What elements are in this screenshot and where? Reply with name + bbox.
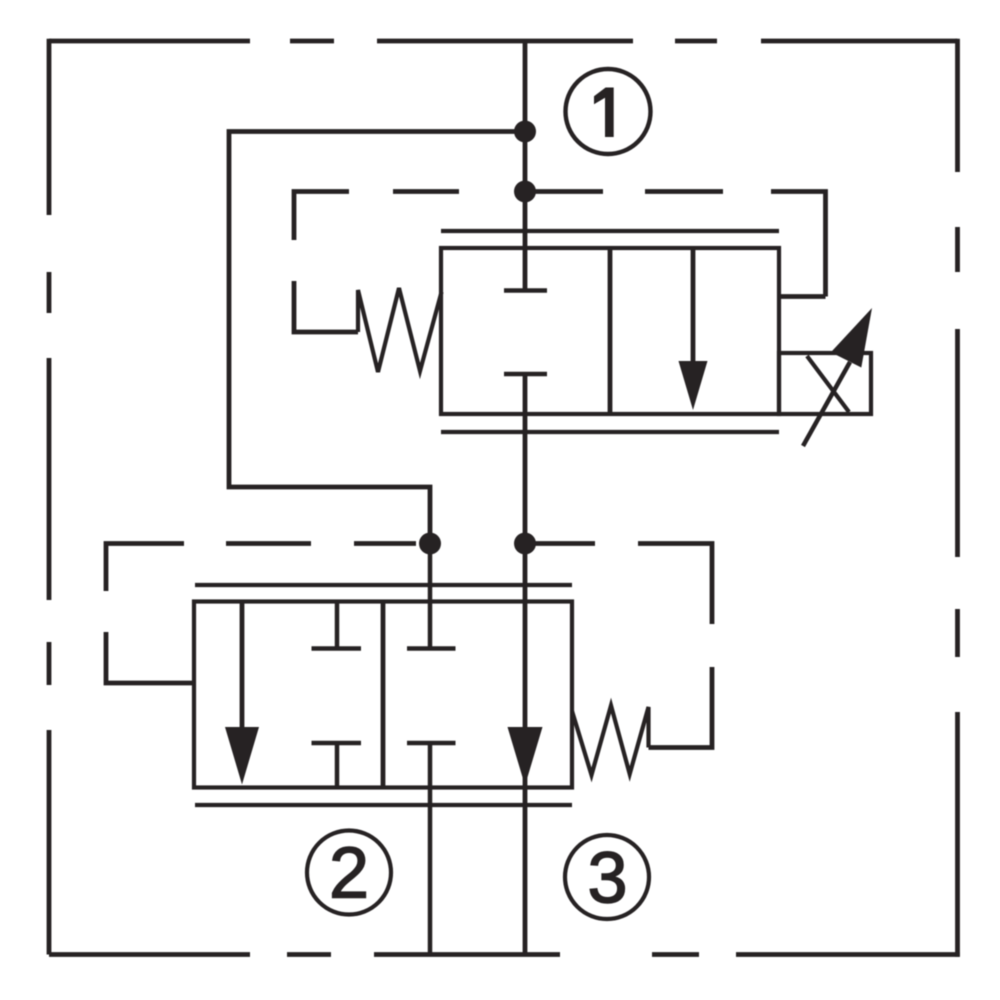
port 3 circle label [565,835,649,919]
upper valve flow arrow head [679,361,708,410]
outer boundary dashed right [955,39,960,957]
node junction dot upper [514,121,536,143]
spring lower valve [572,706,649,776]
node junction dot A lower [419,533,441,555]
upper valve body line bottom [441,430,779,434]
node junction dot on pilot line [514,181,536,203]
wire solid pilot loop left (port1 to lower valve) [229,132,525,544]
adjustment box with cross [779,353,871,414]
upper valve blocked port T bottom [504,372,547,377]
lower valve left flow arrow head [225,727,259,785]
pilot line dashed lower valve left [106,544,416,684]
lower valve box [194,602,572,788]
pilot line dashed upper valve (to spring side) [294,192,826,333]
svg-text:3: 3 [587,839,627,919]
node junction dot B lower [514,533,536,555]
outer boundary dashed left [47,39,52,955]
outer boundary dashed top [49,39,958,44]
upper valve position divider [608,248,613,414]
lower valve right blocked T bottom [407,743,456,955]
wire port 1 vertical into upper valve [523,41,528,291]
lower valve body line top [195,583,572,587]
lower valve left blocked T top [312,602,362,649]
spring upper valve [358,288,442,372]
lower valve left blocked T bottom [312,743,362,788]
pilot line dashed lower valve right [525,544,712,748]
lower valve left flow arrow shaft [240,602,245,731]
upper valve flow arrow shaft [691,248,696,366]
lower valve position divider [381,602,386,788]
lower valve body line bottom [195,803,572,807]
lower valve right flow arrow head [508,727,543,786]
upper valve body line top [441,229,779,233]
upper valve box [441,248,779,414]
svg-text:2: 2 [329,834,369,914]
adjustment arrow [803,308,872,446]
wire main vertical between valves (port 3 path) [523,374,528,955]
port 2 circle label [307,831,391,915]
upper valve blocked port T top [504,288,547,293]
port 1 circle label [566,69,651,154]
wire pilot upper valve right side [779,294,826,299]
outer boundary dashed bottom [49,952,960,957]
lower valve right blocked T top [407,544,456,649]
